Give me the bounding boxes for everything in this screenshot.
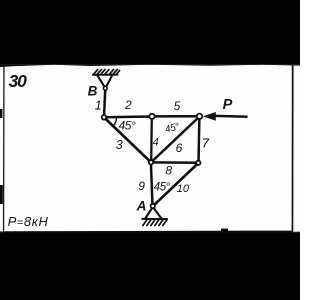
svg-text:9: 9: [138, 179, 145, 193]
svg-text:45°: 45°: [119, 119, 136, 133]
ground hatching at A: [143, 219, 167, 225]
member 5: [152, 115, 200, 118]
node top-right (members 5,6,7 and force P): [197, 114, 202, 119]
left frame line: [3, 65, 5, 233]
node A: [151, 204, 155, 208]
bottom frame border line: [3, 231, 292, 233]
ground base line at A: [141, 218, 167, 220]
svg-text:P=8кН: P=8кН: [8, 214, 49, 229]
pin support triangle at A: [145, 208, 161, 219]
svg-text:4: 4: [153, 137, 159, 149]
svg-text:P: P: [223, 97, 233, 113]
svg-text:45°: 45°: [154, 181, 171, 193]
svg-text:8: 8: [165, 164, 172, 178]
ceiling hatching at B: [93, 70, 119, 75]
node top-middle (members 2,4,5): [149, 114, 154, 119]
svg-text:3: 3: [116, 138, 123, 152]
svg-text:6: 6: [176, 141, 183, 155]
left margin speck 1: [0, 109, 2, 118]
node right-middle (members 7,8,10): [196, 161, 200, 165]
angle arc at node 1: [113, 117, 117, 126]
member 9: [151, 163, 153, 206]
svg-text:B: B: [88, 84, 98, 99]
member 7: [197, 117, 200, 163]
node center (members 3,4,6,8,9): [149, 160, 153, 164]
member 8: [151, 161, 198, 164]
speck on bottom border: [221, 229, 228, 233]
pin circle B: [103, 86, 107, 90]
member 1: [104, 90, 105, 117]
svg-text:2: 2: [124, 98, 132, 112]
svg-text:10: 10: [177, 183, 190, 195]
force P arrow shaft: [216, 115, 248, 118]
svg-text:7: 7: [202, 136, 210, 151]
member 2: [104, 115, 152, 118]
left margin speck 2: [0, 185, 3, 204]
member 3: [105, 118, 151, 162]
svg-text:5: 5: [174, 99, 181, 113]
right frame line: [292, 65, 294, 233]
force P arrowhead: [203, 112, 216, 121]
ceiling base line at B: [92, 74, 118, 76]
svg-text:A: A: [136, 199, 147, 214]
node 1 (junction of members 1,2,3): [102, 115, 107, 120]
member 4: [150, 117, 153, 162]
svg-text:1: 1: [95, 99, 102, 113]
bottom black band: [0, 233, 300, 300]
member 10: [154, 163, 198, 205]
top black band: [0, 0, 300, 65]
member 6: [152, 117, 199, 162]
pin support triangle at B: [97, 75, 112, 87]
svg-text:30: 30: [9, 71, 28, 91]
